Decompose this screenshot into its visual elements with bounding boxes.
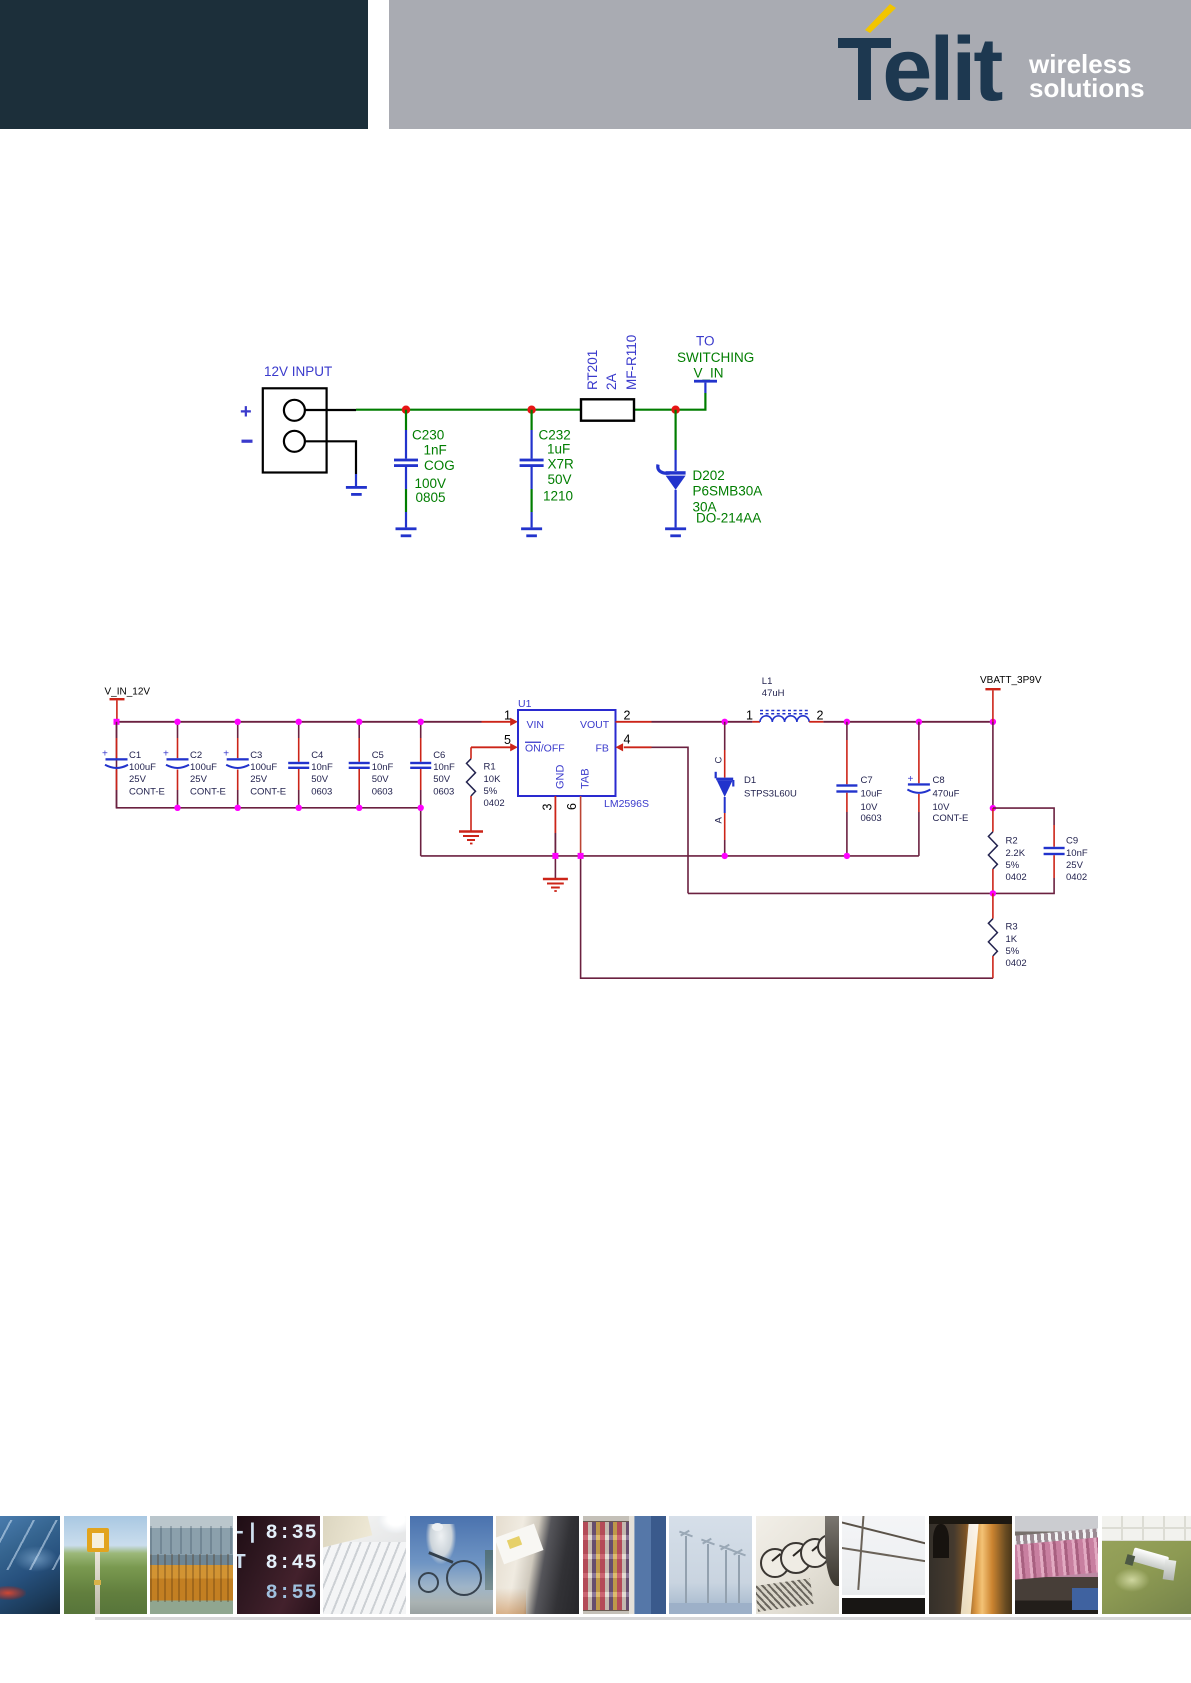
diode D202 TVS <box>658 410 686 528</box>
svg-text:VOUT: VOUT <box>580 719 610 731</box>
header gray band <box>389 0 1191 129</box>
connector J1 body <box>263 388 327 472</box>
svg-text:P6SMB30A: P6SMB30A <box>693 484 763 499</box>
pin arrow ON/OFF <box>510 743 518 751</box>
svg-text:50V: 50V <box>433 774 451 785</box>
svg-text:10uF: 10uF <box>861 789 883 800</box>
svg-text:100uF: 100uF <box>190 762 217 773</box>
wire fuse to V_IN <box>634 393 705 410</box>
node junction at C230 <box>402 406 410 414</box>
wire top input bus <box>117 721 482 723</box>
node junctions on top bus <box>174 719 424 725</box>
svg-text:C5: C5 <box>372 750 384 761</box>
svg-text:0603: 0603 <box>861 813 882 824</box>
wire VIN pin stub <box>482 721 512 723</box>
node junction C7 bottom <box>844 853 850 859</box>
svg-text:STPS3L60U: STPS3L60U <box>744 789 797 800</box>
svg-text:C4: C4 <box>311 750 323 761</box>
node junction VOUT-D1 <box>722 719 728 725</box>
R1 labels <box>484 762 505 810</box>
svg-text:C232: C232 <box>539 428 571 443</box>
svg-text:C1: C1 <box>129 750 141 761</box>
capacitor C230 <box>394 410 418 528</box>
svg-text:100V: 100V <box>415 476 447 491</box>
svg-text:X7R: X7R <box>548 457 575 472</box>
C4 labels <box>311 750 333 797</box>
svg-text:A: A <box>714 817 725 824</box>
svg-text:100uF: 100uF <box>250 762 277 773</box>
resistor R1 <box>467 747 476 831</box>
C9 labels <box>1066 836 1088 884</box>
svg-text:1K: 1K <box>1006 934 1018 945</box>
C1 labels <box>129 750 165 797</box>
svg-text:V_IN: V_IN <box>694 366 724 381</box>
svg-text:C2: C2 <box>190 750 202 761</box>
svg-text:10nF: 10nF <box>1066 848 1088 859</box>
svg-text:0402: 0402 <box>484 798 505 809</box>
svg-text:C: C <box>714 757 725 764</box>
wire from plus pin <box>305 409 356 411</box>
ground below D202 <box>665 527 686 537</box>
svg-text:0402: 0402 <box>1066 872 1087 883</box>
svg-text:25V: 25V <box>190 774 208 785</box>
ground below C230 <box>396 527 417 537</box>
resistor R3 <box>988 893 997 978</box>
svg-text:+: + <box>163 749 169 760</box>
svg-text:0402: 0402 <box>1006 872 1027 883</box>
U1 pin name ON/OFF with overline <box>525 742 565 755</box>
svg-text:L1: L1 <box>762 676 773 687</box>
shadow line under strip <box>95 1617 1191 1620</box>
svg-text:VBATT_3P9V: VBATT_3P9V <box>980 675 1042 686</box>
ground below minus wire <box>346 474 367 496</box>
svg-text:10V: 10V <box>861 802 879 813</box>
svg-text:2: 2 <box>624 709 631 723</box>
svg-text:1nF: 1nF <box>424 443 447 458</box>
svg-text:D202: D202 <box>693 468 725 483</box>
svg-text:1: 1 <box>746 709 753 723</box>
svg-text:10nF: 10nF <box>311 762 333 773</box>
capacitor C5 <box>349 722 370 808</box>
svg-text:V_IN_12V: V_IN_12V <box>105 687 151 698</box>
fuse RT201 body <box>581 399 634 420</box>
capacitor C8 polarized <box>907 722 930 856</box>
svg-text:470uF: 470uF <box>933 789 960 800</box>
svg-text:C7: C7 <box>861 775 873 786</box>
svg-text:2A: 2A <box>604 373 619 390</box>
svg-text:U1: U1 <box>518 698 532 710</box>
capacitor C6 <box>410 722 431 808</box>
svg-text:0805: 0805 <box>416 490 446 505</box>
svg-text:50V: 50V <box>372 774 390 785</box>
svg-text:C230: C230 <box>412 428 444 443</box>
minus terminal label <box>242 440 253 443</box>
svg-text:25V: 25V <box>1066 860 1084 871</box>
svg-text:4: 4 <box>624 733 631 747</box>
svg-text:C3: C3 <box>250 750 262 761</box>
svg-text:DO-214AA: DO-214AA <box>696 511 761 526</box>
svg-text:LM2596S: LM2596S <box>604 798 649 810</box>
wire bottom capacitor bus <box>117 722 421 856</box>
svg-text:D1: D1 <box>744 775 756 786</box>
wire ground bus <box>421 855 919 857</box>
svg-text:TO: TO <box>696 334 715 349</box>
capacitor C7 <box>836 722 857 856</box>
svg-text:10nF: 10nF <box>433 762 455 773</box>
svg-text:RT201: RT201 <box>585 350 600 390</box>
C8 labels <box>933 775 969 824</box>
svg-text:47uH: 47uH <box>762 688 785 699</box>
svg-text:+: + <box>102 749 108 760</box>
power port V_IN_12V <box>110 698 125 722</box>
ground below R1 <box>459 832 483 844</box>
C5 labels <box>372 750 394 797</box>
C2 labels <box>190 750 226 797</box>
svg-text:6: 6 <box>565 803 579 810</box>
node junction C7 top <box>844 719 850 725</box>
connector pin circle 2 <box>284 431 305 452</box>
svg-text:25V: 25V <box>129 774 147 785</box>
resistor R2 <box>988 808 997 893</box>
svg-text:CONT-E: CONT-E <box>190 786 226 797</box>
photo strip <box>0 1516 1191 1614</box>
svg-text:CONT-E: CONT-E <box>129 786 165 797</box>
header dark block <box>0 0 368 129</box>
diode D1 schottky <box>715 722 735 856</box>
C6 labels <box>433 750 455 797</box>
yellow antenna stroke <box>865 4 896 33</box>
svg-text:0603: 0603 <box>311 786 332 797</box>
svg-text:C6: C6 <box>433 750 445 761</box>
svg-text:C9: C9 <box>1066 836 1078 847</box>
svg-text:CONT-E: CONT-E <box>933 813 969 824</box>
node TAB junction <box>578 853 584 859</box>
svg-text:2.2K: 2.2K <box>1006 848 1026 859</box>
wire from minus pin <box>305 441 356 474</box>
svg-text:3: 3 <box>541 804 555 811</box>
ground below C232 <box>521 527 542 537</box>
wire VBATT vertical <box>992 722 994 808</box>
capacitor C2 <box>163 722 189 808</box>
svg-text:0402: 0402 <box>1006 958 1027 969</box>
svg-text:10V: 10V <box>933 802 951 813</box>
svg-text:10nF: 10nF <box>372 762 394 773</box>
svg-text:COG: COG <box>424 458 455 473</box>
wire VOUT pin 2 <box>616 721 725 723</box>
svg-text:1210: 1210 <box>543 489 573 504</box>
svg-text:2: 2 <box>817 709 824 723</box>
node junction at C232 <box>527 406 535 414</box>
svg-text:12V INPUT: 12V INPUT <box>264 364 332 379</box>
wire FB pin 4 feedback <box>616 743 689 893</box>
wire R1 to ON/OFF pin <box>471 746 511 748</box>
svg-text:1uF: 1uF <box>547 442 570 457</box>
capacitor C232 <box>520 410 544 528</box>
svg-text:50V: 50V <box>311 774 329 785</box>
Telit logo <box>820 0 1191 129</box>
node junctions on bottom capacitor bus <box>174 805 424 811</box>
svg-text:5%: 5% <box>484 786 498 797</box>
node junction FB-R2-R3 <box>990 890 996 896</box>
svg-text:GND: GND <box>555 765 567 790</box>
ground below pin 3 <box>543 879 568 891</box>
node junction at D202 <box>671 406 679 414</box>
pin arrow VIN <box>510 718 518 726</box>
svg-text:25V: 25V <box>250 774 268 785</box>
svg-text:C8: C8 <box>933 775 945 786</box>
wire GND pin 3 <box>554 796 556 879</box>
node V_IN_12V junction <box>114 719 120 725</box>
node GND junction <box>552 853 558 859</box>
svg-text:MF-R110: MF-R110 <box>624 335 639 390</box>
wire main input net <box>356 409 581 411</box>
C3 labels <box>250 750 286 797</box>
svg-text:5%: 5% <box>1006 946 1020 957</box>
svg-text:50V: 50V <box>548 472 572 487</box>
port V_IN bar <box>694 380 717 393</box>
node junction C8 top <box>916 719 922 725</box>
wire FB horizontal <box>688 892 993 894</box>
svg-text:R2: R2 <box>1006 836 1018 847</box>
svg-text:TAB: TAB <box>580 768 592 789</box>
capacitor C4 <box>288 722 309 808</box>
node junction R2 top <box>990 805 996 811</box>
svg-text:0603: 0603 <box>372 786 393 797</box>
svg-text:CONT-E: CONT-E <box>250 786 286 797</box>
op-amp U1 LM2596S body <box>518 710 616 796</box>
capacitor C3 <box>223 722 249 808</box>
power port VBATT_3P9V <box>985 688 1000 722</box>
svg-text:VIN: VIN <box>527 719 545 731</box>
R3 labels <box>1006 922 1027 970</box>
svg-text:1: 1 <box>504 709 511 723</box>
svg-text:5: 5 <box>504 733 511 747</box>
svg-text:100uF: 100uF <box>129 762 156 773</box>
svg-text:+: + <box>223 749 229 760</box>
wire TAB pin 6 to R3 bottom <box>581 796 993 978</box>
capacitor C9 <box>993 808 1065 893</box>
connector pin circle 1 <box>284 400 305 421</box>
R2 labels <box>1006 836 1027 884</box>
node junction D1 bottom <box>722 853 728 859</box>
svg-text:5%: 5% <box>1006 860 1020 871</box>
node junction VBATT <box>990 719 996 725</box>
svg-text:0603: 0603 <box>433 786 454 797</box>
svg-text:R3: R3 <box>1006 922 1018 933</box>
svg-text:ON/OFF: ON/OFF <box>525 743 565 755</box>
svg-text:+: + <box>240 401 252 423</box>
capacitor C1 <box>102 722 128 808</box>
C7 labels <box>861 775 883 824</box>
svg-text:10K: 10K <box>484 774 502 785</box>
svg-text:SWITCHING: SWITCHING <box>677 350 754 365</box>
svg-text:R1: R1 <box>484 762 496 773</box>
svg-text:FB: FB <box>596 743 609 755</box>
inductor L1 <box>725 711 993 723</box>
